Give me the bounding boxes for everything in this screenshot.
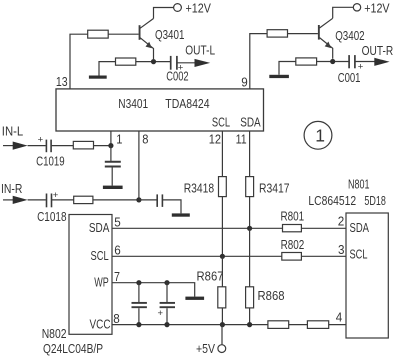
svg-text:C002: C002: [166, 68, 188, 83]
node SDA / R868: [247, 226, 252, 231]
resistor R868: [246, 287, 285, 308]
svg-text:12: 12: [209, 131, 221, 146]
svg-text:6: 6: [114, 243, 121, 258]
wire base Q3402: [288, 33, 318, 35]
IN-L input: [2, 124, 28, 150]
svg-text:C001: C001: [338, 70, 361, 85]
svg-text:+: +: [53, 190, 59, 201]
capacitor C1018: [37, 190, 66, 224]
resistor IN-L: [73, 141, 93, 149]
output OUT-L: [185, 42, 215, 67]
capacitor WP filter 1: [132, 283, 147, 325]
wire WP row: [112, 283, 195, 297]
wire C001 to OUT-R: [355, 61, 375, 63]
wire resistor to node pin1: [94, 145, 111, 147]
wire collector Q3402 to +12V: [333, 7, 354, 18]
resistor base right: [267, 30, 287, 37]
svg-text:SDA: SDA: [350, 220, 370, 235]
wire to pin 9: [250, 34, 267, 89]
svg-text:8: 8: [142, 131, 148, 146]
svg-text:R3418: R3418: [184, 180, 215, 195]
resistor R3418: [184, 177, 227, 197]
wire SCL node to R867: [221, 256, 223, 287]
svg-text:SCL: SCL: [212, 114, 230, 129]
svg-text:+: +: [158, 308, 164, 319]
ground (WP): [185, 297, 204, 300]
svg-text:R868: R868: [258, 288, 285, 303]
wire R3418 to SCL row: [221, 197, 223, 257]
IN-R input: [1, 181, 28, 204]
wire C002 to OUT-L: [178, 62, 196, 64]
resistor base left: [88, 30, 109, 38]
svg-text:5: 5: [114, 215, 121, 230]
node VCC cap2: [164, 322, 169, 327]
resistor emitter right: [296, 58, 317, 65]
svg-text:11: 11: [236, 131, 247, 146]
resistor pin4 a: [268, 321, 289, 329]
wire SDA row: [112, 227, 283, 229]
svg-text:+12V: +12V: [364, 0, 390, 15]
wire arrow to C1019: [28, 145, 46, 147]
node WP cap1: [136, 280, 141, 285]
svg-text:IN-R: IN-R: [1, 181, 22, 196]
wire C1018 to resistor: [52, 199, 74, 201]
transistor Q3401: [139, 19, 185, 60]
capacitor C1019: [36, 134, 65, 168]
output OUT-R: [362, 43, 394, 66]
wire R868 to VCC row: [249, 308, 251, 325]
wire base Q3401: [108, 33, 138, 35]
svg-text:8: 8: [113, 311, 120, 326]
svg-text:N3401: N3401: [118, 96, 148, 111]
svg-text:TDA8424: TDA8424: [165, 96, 209, 111]
ground (IN-R filter): [172, 213, 190, 216]
IC N802 Q24LC04B/P: [69, 215, 112, 335]
+12V terminal right: [353, 0, 390, 15]
wire emitter node row right: [317, 61, 349, 63]
svg-text:4: 4: [336, 310, 343, 325]
svg-text:SCL: SCL: [350, 246, 368, 261]
wire resistor to node pin8: [93, 199, 139, 201]
svg-text:SDA: SDA: [89, 220, 110, 235]
wire R801 to pin 2: [301, 227, 346, 229]
svg-text:C1018: C1018: [37, 209, 66, 224]
marker circled 1: [304, 121, 332, 149]
pin 12: [209, 131, 223, 177]
svg-text:2: 2: [338, 214, 345, 229]
capacitor C002: [166, 56, 188, 84]
svg-text:OUT-R: OUT-R: [362, 43, 394, 58]
IC N801 LC864512: [346, 213, 388, 338]
wire VCC row: [112, 324, 268, 326]
wire emitter node row: [136, 61, 170, 63]
wire R3417 to SDA row: [249, 197, 251, 229]
svg-text:C1019: C1019: [36, 153, 65, 168]
wire arrow to C1018: [28, 199, 46, 201]
svg-text:Q3401: Q3401: [155, 27, 184, 42]
wire R867 to VCC row: [221, 308, 223, 325]
IC N3401 TDA8424: [56, 89, 264, 131]
resistor R3417: [246, 177, 290, 197]
svg-text:SDA: SDA: [240, 114, 261, 129]
wire to pin 4: [329, 324, 346, 326]
svg-text:R801: R801: [281, 208, 305, 223]
svg-text:5D18: 5D18: [364, 193, 386, 208]
node VCC cap1: [136, 322, 141, 327]
pin 1: [111, 131, 123, 146]
wire emitter resistor right to ground: [279, 62, 296, 75]
ground (pin1 filter): [103, 186, 123, 189]
svg-text:+: +: [38, 134, 44, 145]
node emitter Q3402: [330, 59, 335, 64]
svg-text:1: 1: [315, 126, 325, 146]
svg-text:R867: R867: [197, 269, 224, 284]
svg-text:R3417: R3417: [259, 180, 290, 195]
+5V terminal: [196, 325, 226, 356]
svg-text:Q24LC04B/P: Q24LC04B/P: [43, 341, 103, 356]
svg-text:N802: N802: [42, 326, 67, 341]
svg-text:SCL: SCL: [91, 248, 109, 263]
transistor Q3402: [318, 18, 365, 59]
+12V terminal left: [174, 1, 212, 16]
resistor IN-R: [74, 196, 93, 203]
resistor R801: [281, 208, 305, 231]
node WP cap2: [164, 280, 169, 285]
capacitor WP filter 2 electrolytic: [158, 283, 176, 325]
svg-text:+5V: +5V: [196, 341, 215, 356]
resistor emitter left: [116, 58, 136, 65]
ground (left emitter): [89, 76, 107, 79]
ground (right emitter): [269, 75, 289, 78]
pin 8: [139, 131, 149, 200]
resistor R867: [197, 269, 226, 308]
svg-text:Q3402: Q3402: [335, 28, 364, 43]
node VCC R868: [247, 322, 252, 327]
pin 11: [236, 131, 250, 177]
wire SCL row: [112, 255, 282, 257]
svg-text:+12V: +12V: [186, 1, 212, 16]
wire collector Q3401 to +12V: [154, 8, 174, 19]
svg-text:3: 3: [338, 242, 345, 257]
wire C1019 to resistor: [52, 145, 74, 147]
node emitter Q3401: [151, 59, 156, 64]
wire R802 to pin 3: [301, 255, 346, 257]
wire between pin4 resistors: [289, 324, 308, 326]
wire SDA node to R868: [249, 228, 251, 286]
svg-text:IN-L: IN-L: [2, 124, 23, 139]
resistor pin4 b: [307, 321, 328, 329]
node VCC R867: [220, 322, 225, 327]
svg-text:7: 7: [114, 269, 120, 284]
node pin 1: [108, 143, 113, 148]
svg-text:9: 9: [241, 74, 248, 89]
svg-text:VCC: VCC: [90, 317, 111, 332]
capacitor C001: [338, 55, 364, 85]
capacitor pin1 filter: [105, 146, 121, 186]
svg-text:1: 1: [116, 131, 122, 146]
wire cap to ground: [163, 200, 181, 214]
node SCL / R867: [220, 254, 225, 259]
resistor R802: [281, 237, 305, 260]
capacitor IN-R filter: [139, 194, 163, 207]
wire emitter resistor to ground: [99, 62, 116, 76]
node pin 8: [136, 197, 141, 202]
svg-text:N801: N801: [348, 177, 370, 192]
svg-text:LC864512: LC864512: [308, 193, 356, 208]
svg-text:13: 13: [56, 74, 68, 89]
svg-text:OUT-L: OUT-L: [185, 42, 215, 57]
svg-text:R802: R802: [281, 237, 305, 252]
svg-text:WP: WP: [94, 275, 109, 290]
wire to pin 13: [70, 34, 88, 89]
